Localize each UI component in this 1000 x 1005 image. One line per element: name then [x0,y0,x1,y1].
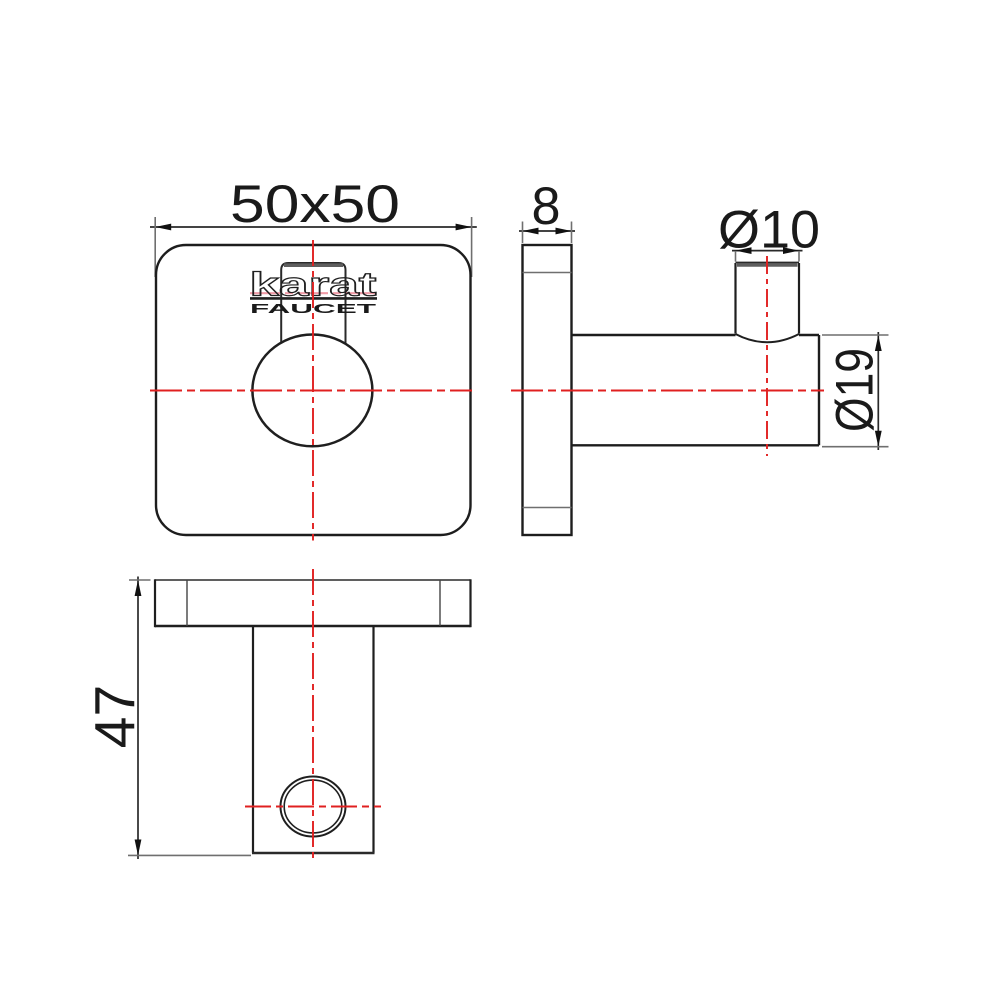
side view: post (hook peg) sides [736,263,800,334]
bottom view: plate corner tangent line left [186,580,188,626]
logo underline [250,297,377,300]
bottom view: plate bar bottom edge [155,625,471,627]
logo red accent centerline [250,292,378,294]
bottom view: plate bar right edge [469,579,471,627]
extension lines Ø10 [736,251,800,262]
front view: hook circle [252,335,372,447]
dimension line Ø10 [732,247,803,254]
bottom view: hole outer circle [281,777,346,837]
dimension line 50x50 [150,224,477,231]
bottom view: plate corner tangent line right [439,580,441,626]
svg-text:50x50: 50x50 [230,175,400,234]
dimension line Ø19 [875,332,882,450]
side view: post top thin cap line [736,261,800,263]
front view: vertical centerline (red) [312,240,314,541]
svg-text:8: 8 [532,177,561,236]
front view: rounded square plate outline [156,245,471,535]
front view: logo tab bracket [281,263,345,343]
front view: horizontal centerline (red) [150,390,472,392]
dimension line 47 [135,577,142,860]
side view: post vertical centerline (red) [766,256,768,456]
side view: horizontal centerline (red) [511,390,824,392]
bottom view: horizontal centerline (red) [245,806,381,808]
front view: tab top edge (thick gray) [284,263,343,267]
bottom view: vertical centerline (red) [312,569,314,862]
bottom view: plate bar top edge (thin) [155,579,471,581]
side view: post top edge (thick gray) [737,263,798,267]
bottom view: stem bottom edge [252,852,375,855]
dimension line 8 [519,228,575,235]
side view: post-cylinder intersection arc [736,334,800,342]
extension lines 8 [523,222,572,244]
extension lines 50x50 [155,217,471,277]
side view: plate corner tangent lines [523,273,572,508]
svg-text:Ø19: Ø19 [826,348,885,432]
bottom view: hole inner circle [284,780,342,833]
bottom view: stem (cylinder from below) [253,626,374,853]
extension line 47 bottom [128,854,251,856]
extension lines Ø19 [822,335,889,447]
extension line 47 top [129,579,151,581]
side view: wall plate (side profile) [523,245,572,535]
side view: cylinder body [572,335,820,445]
bottom view: plate bar left edge [154,579,156,627]
